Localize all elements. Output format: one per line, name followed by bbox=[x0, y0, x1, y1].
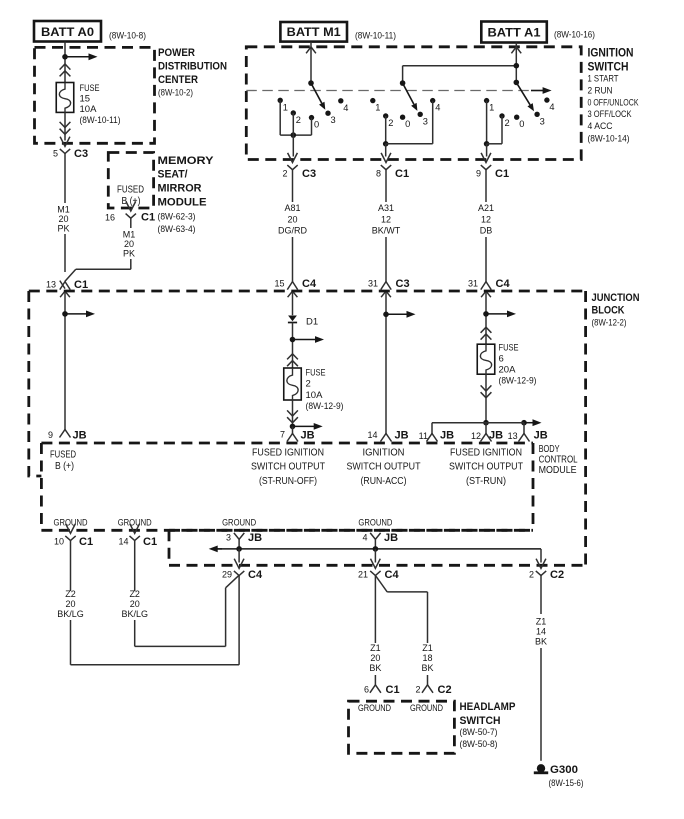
svg-text:(8W-12-2): (8W-12-2) bbox=[592, 318, 627, 329]
svg-text:4 ACC: 4 ACC bbox=[588, 120, 613, 131]
svg-text:M1: M1 bbox=[57, 204, 70, 214]
svg-text:4: 4 bbox=[362, 532, 367, 542]
svg-text:3: 3 bbox=[540, 116, 545, 126]
svg-text:7: 7 bbox=[280, 430, 285, 440]
svg-text:MIRROR: MIRROR bbox=[158, 183, 202, 195]
svg-text:JB: JB bbox=[73, 430, 87, 442]
svg-text:C4: C4 bbox=[302, 278, 317, 290]
svg-text:C2: C2 bbox=[438, 684, 452, 696]
svg-text:SWITCH OUTPUT: SWITCH OUTPUT bbox=[251, 462, 325, 473]
svg-text:(ST-RUN-OFF): (ST-RUN-OFF) bbox=[259, 476, 317, 487]
svg-text:JB: JB bbox=[248, 532, 262, 544]
svg-text:C1: C1 bbox=[143, 536, 157, 548]
svg-text:15: 15 bbox=[80, 94, 91, 105]
svg-text:20A: 20A bbox=[499, 364, 517, 375]
svg-text:Z2: Z2 bbox=[129, 589, 140, 599]
svg-text:2: 2 bbox=[282, 169, 287, 179]
svg-text:DISTRIBUTION: DISTRIBUTION bbox=[158, 61, 227, 73]
svg-text:13: 13 bbox=[46, 280, 56, 290]
svg-text:C2: C2 bbox=[550, 569, 564, 581]
svg-text:FUSED: FUSED bbox=[117, 185, 144, 196]
svg-text:C4: C4 bbox=[496, 278, 511, 290]
svg-text:4: 4 bbox=[343, 103, 348, 113]
svg-text:2: 2 bbox=[505, 118, 510, 128]
svg-text:1: 1 bbox=[283, 102, 288, 112]
svg-text:IGNITION: IGNITION bbox=[588, 47, 634, 59]
svg-text:31: 31 bbox=[368, 278, 378, 288]
svg-text:2: 2 bbox=[388, 118, 393, 128]
svg-text:31: 31 bbox=[468, 278, 478, 288]
svg-text:JB: JB bbox=[395, 430, 409, 442]
svg-text:16: 16 bbox=[105, 212, 115, 222]
svg-text:C1: C1 bbox=[141, 212, 155, 224]
svg-text:20: 20 bbox=[58, 214, 68, 224]
svg-text:MODULE: MODULE bbox=[158, 197, 207, 209]
svg-text:6: 6 bbox=[364, 685, 369, 695]
svg-text:G300: G300 bbox=[550, 764, 578, 776]
svg-text:SEAT/: SEAT/ bbox=[158, 169, 189, 181]
svg-text:SWITCH OUTPUT: SWITCH OUTPUT bbox=[449, 462, 523, 473]
svg-text:C4: C4 bbox=[385, 569, 400, 581]
svg-text:BATT A1: BATT A1 bbox=[488, 27, 542, 39]
svg-text:BK/LG: BK/LG bbox=[121, 609, 148, 619]
svg-text:4: 4 bbox=[549, 102, 554, 112]
svg-text:(8W-10-11): (8W-10-11) bbox=[355, 30, 396, 41]
svg-text:FUSE: FUSE bbox=[499, 343, 519, 354]
svg-text:13: 13 bbox=[508, 431, 518, 441]
svg-text:(8W-10-2): (8W-10-2) bbox=[158, 87, 193, 98]
svg-text:(8W-63-4): (8W-63-4) bbox=[158, 224, 196, 235]
svg-text:BLOCK: BLOCK bbox=[592, 305, 626, 317]
svg-text:MEMORY: MEMORY bbox=[158, 155, 215, 167]
svg-text:29: 29 bbox=[222, 570, 232, 580]
svg-text:DB: DB bbox=[480, 226, 493, 236]
svg-text:JB: JB bbox=[384, 532, 398, 544]
svg-text:Z2: Z2 bbox=[65, 589, 76, 599]
svg-text:2: 2 bbox=[296, 115, 301, 125]
svg-text:Z1: Z1 bbox=[370, 643, 381, 653]
svg-text:3: 3 bbox=[226, 532, 231, 542]
svg-text:20: 20 bbox=[130, 599, 140, 609]
svg-text:14: 14 bbox=[536, 627, 546, 637]
svg-text:C1: C1 bbox=[74, 279, 88, 291]
svg-text:18: 18 bbox=[422, 653, 432, 663]
svg-text:3: 3 bbox=[331, 115, 336, 125]
svg-text:GROUND: GROUND bbox=[54, 516, 88, 527]
svg-text:BK/WT: BK/WT bbox=[372, 226, 401, 236]
svg-text:JB: JB bbox=[301, 430, 315, 442]
svg-text:BATT M1: BATT M1 bbox=[287, 27, 342, 39]
svg-text:20: 20 bbox=[370, 653, 380, 663]
svg-text:20: 20 bbox=[65, 599, 75, 609]
svg-text:GROUND: GROUND bbox=[410, 702, 443, 713]
svg-text:0: 0 bbox=[405, 119, 410, 129]
svg-text:4: 4 bbox=[435, 103, 440, 113]
svg-text:3 OFF/LOCK: 3 OFF/LOCK bbox=[588, 108, 633, 119]
svg-text:2: 2 bbox=[306, 379, 311, 390]
svg-text:Z1: Z1 bbox=[422, 643, 433, 653]
svg-text:0: 0 bbox=[519, 119, 524, 129]
svg-text:6: 6 bbox=[499, 354, 504, 365]
svg-text:PK: PK bbox=[123, 249, 135, 259]
svg-text:C4: C4 bbox=[248, 569, 263, 581]
svg-text:12: 12 bbox=[471, 431, 481, 441]
svg-text:(8W-50-7): (8W-50-7) bbox=[460, 727, 498, 738]
svg-text:(8W-62-3): (8W-62-3) bbox=[158, 212, 196, 223]
svg-text:A31: A31 bbox=[378, 203, 394, 213]
svg-text:A81: A81 bbox=[284, 203, 300, 213]
svg-text:14: 14 bbox=[118, 536, 128, 546]
svg-text:JB: JB bbox=[534, 430, 548, 442]
svg-text:SWITCH OUTPUT: SWITCH OUTPUT bbox=[347, 462, 421, 473]
svg-text:C3: C3 bbox=[302, 168, 316, 180]
svg-text:GROUND: GROUND bbox=[358, 702, 391, 713]
svg-text:(RUN-ACC): (RUN-ACC) bbox=[361, 476, 407, 487]
svg-text:FUSED IGNITION: FUSED IGNITION bbox=[252, 447, 324, 458]
svg-text:14: 14 bbox=[367, 430, 377, 440]
svg-text:BK: BK bbox=[535, 637, 547, 647]
svg-text:(8W-12-9): (8W-12-9) bbox=[499, 375, 537, 386]
svg-text:C1: C1 bbox=[386, 684, 400, 696]
svg-text:GROUND: GROUND bbox=[358, 516, 392, 527]
svg-text:JUNCTION: JUNCTION bbox=[592, 292, 640, 304]
svg-text:2: 2 bbox=[529, 570, 534, 580]
svg-text:D1: D1 bbox=[306, 317, 318, 328]
svg-text:BK/LG: BK/LG bbox=[57, 609, 84, 619]
svg-text:20: 20 bbox=[287, 214, 297, 224]
svg-text:(8W-10-16): (8W-10-16) bbox=[554, 30, 595, 41]
svg-text:IGNITION: IGNITION bbox=[363, 447, 405, 458]
svg-text:BK: BK bbox=[369, 663, 381, 673]
svg-text:BK: BK bbox=[421, 663, 433, 673]
svg-text:B (+): B (+) bbox=[55, 461, 74, 472]
svg-text:(8W-50-8): (8W-50-8) bbox=[460, 739, 498, 750]
svg-text:BATT A0: BATT A0 bbox=[41, 27, 94, 39]
svg-text:B (+): B (+) bbox=[122, 196, 141, 207]
svg-text:8: 8 bbox=[376, 169, 381, 179]
svg-text:12: 12 bbox=[481, 214, 491, 224]
svg-text:2: 2 bbox=[415, 685, 420, 695]
svg-text:1 START: 1 START bbox=[588, 73, 619, 84]
svg-text:M1: M1 bbox=[123, 229, 136, 239]
svg-text:FUSE: FUSE bbox=[80, 83, 100, 94]
svg-text:3: 3 bbox=[423, 116, 428, 126]
svg-text:(8W-10-14): (8W-10-14) bbox=[588, 133, 630, 144]
svg-text:CONTROL: CONTROL bbox=[539, 455, 578, 466]
svg-text:PK: PK bbox=[57, 224, 69, 234]
svg-text:11: 11 bbox=[419, 431, 428, 441]
svg-text:10: 10 bbox=[54, 536, 64, 546]
svg-text:FUSED IGNITION: FUSED IGNITION bbox=[450, 447, 522, 458]
svg-text:BODY: BODY bbox=[539, 444, 560, 455]
svg-text:Z1: Z1 bbox=[536, 617, 547, 627]
svg-text:POWER: POWER bbox=[158, 47, 195, 59]
svg-text:(8W-12-9): (8W-12-9) bbox=[306, 401, 344, 412]
svg-text:DG/RD: DG/RD bbox=[278, 226, 308, 236]
svg-text:C3: C3 bbox=[74, 148, 88, 160]
svg-text:9: 9 bbox=[476, 169, 481, 179]
svg-text:5: 5 bbox=[53, 149, 58, 159]
svg-text:HEADLAMP: HEADLAMP bbox=[460, 701, 516, 713]
svg-text:0 OFF/UNLOCK: 0 OFF/UNLOCK bbox=[588, 96, 640, 107]
svg-text:C1: C1 bbox=[395, 168, 409, 180]
svg-text:(8W-10-11): (8W-10-11) bbox=[80, 115, 121, 126]
svg-text:1: 1 bbox=[489, 103, 494, 113]
svg-text:SWITCH: SWITCH bbox=[460, 715, 501, 727]
svg-text:10A: 10A bbox=[306, 390, 324, 401]
svg-text:MODULE: MODULE bbox=[539, 465, 577, 476]
svg-text:CENTER: CENTER bbox=[158, 74, 198, 86]
svg-text:15: 15 bbox=[274, 278, 284, 288]
svg-text:10A: 10A bbox=[80, 104, 98, 115]
svg-text:JB: JB bbox=[489, 430, 503, 442]
svg-text:GROUND: GROUND bbox=[222, 516, 256, 527]
svg-text:9: 9 bbox=[48, 430, 53, 440]
svg-text:0: 0 bbox=[314, 120, 319, 130]
svg-text:C3: C3 bbox=[396, 278, 410, 290]
svg-text:FUSE: FUSE bbox=[306, 368, 326, 379]
svg-text:12: 12 bbox=[381, 214, 391, 224]
svg-text:2 RUN: 2 RUN bbox=[588, 84, 613, 95]
svg-text:GROUND: GROUND bbox=[118, 516, 152, 527]
svg-text:JB: JB bbox=[440, 430, 454, 442]
svg-text:C1: C1 bbox=[495, 168, 509, 180]
svg-text:FUSED: FUSED bbox=[50, 449, 76, 460]
svg-text:20: 20 bbox=[124, 239, 134, 249]
svg-text:A21: A21 bbox=[478, 203, 494, 213]
svg-text:(8W-15-6): (8W-15-6) bbox=[549, 778, 584, 789]
svg-text:(8W-10-8): (8W-10-8) bbox=[109, 30, 146, 41]
svg-text:1: 1 bbox=[375, 103, 380, 113]
svg-text:C1: C1 bbox=[79, 536, 93, 548]
svg-text:21: 21 bbox=[358, 570, 368, 580]
svg-text:(ST-RUN): (ST-RUN) bbox=[466, 476, 506, 487]
